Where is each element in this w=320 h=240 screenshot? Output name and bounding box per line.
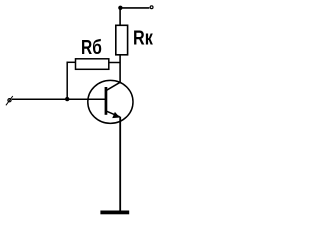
svg-text:Rк: Rк [133, 28, 154, 50]
svg-text:Rб: Rб [81, 37, 102, 59]
